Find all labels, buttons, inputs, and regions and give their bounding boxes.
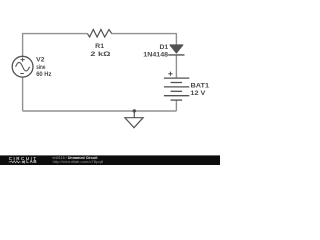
battery BAT1 plate short 3 [171,99,183,101]
wire: resistor to diode [112,34,177,45]
svg-text:60 Hz: 60 Hz [36,71,52,78]
battery BAT1 plate short 1 [171,82,183,84]
battery BAT1 plate long 3 [164,95,189,97]
diode D1 triangle [170,45,183,53]
svg-text:V2: V2 [36,56,45,63]
voltage source V2 [12,56,33,77]
svg-text:BAT1: BAT1 [191,83,210,90]
battery BAT1 plus sign [168,72,172,76]
svg-text:12 V: 12 V [190,90,206,97]
svg-text:D1: D1 [160,44,169,51]
svg-text:R1: R1 [95,43,104,50]
ground [125,111,143,128]
wire: bottom rail [23,110,177,112]
battery BAT1 plate short 2 [171,90,183,92]
battery BAT1 plate long 1 [164,77,189,79]
wire: battery to bottom rail [175,100,177,111]
footer bar [0,155,220,165]
resistor R1 [87,30,111,38]
svg-text:2 kΩ: 2 kΩ [90,51,110,58]
wire: source bottom to bottom rail [22,77,24,111]
wire: diode to battery [175,55,177,78]
logo zigzag [9,161,21,163]
V2 plus sign [21,58,25,62]
logo diode glyph [22,161,26,164]
wire: source top to resistor [23,34,88,57]
svg-text:http://circuitlab.com/c78pq8: http://circuitlab.com/c78pq8 [53,160,103,164]
V2 minus sign [20,73,24,75]
svg-text:LAB: LAB [26,159,36,164]
svg-text:sine: sine [36,64,45,71]
junction node [133,109,136,112]
V2 sine wave [16,62,30,71]
svg-text:1N4148: 1N4148 [143,52,168,59]
battery BAT1 plate long 2 [164,86,189,88]
diode D1 cathode bar [168,54,184,56]
